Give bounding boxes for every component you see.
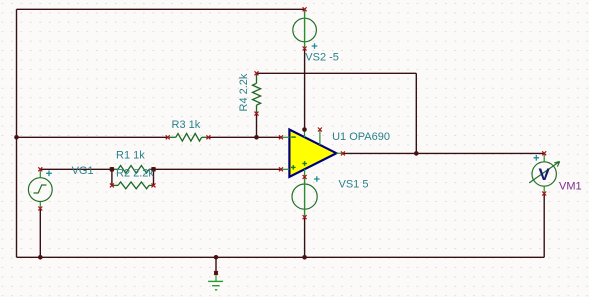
wire: VG1 to R1R2 — [40, 168, 112, 170]
junction left wire / inverting net — [14, 135, 19, 140]
wire: inverting input right segment — [208, 136, 281, 138]
pin marker U1 non-inverting input — [279, 167, 283, 171]
svg-text:R3 1k: R3 1k — [172, 119, 201, 131]
wire: inverting input left segment — [17, 136, 168, 138]
voltage source VS2 circle — [293, 18, 317, 42]
voltmeter VM1 bottom pin stub — [543, 186, 545, 193]
pin marker R4 bottom terminal — [255, 112, 259, 116]
svg-text:VS2 -5: VS2 -5 — [305, 51, 339, 63]
pin marker R2 left terminal — [110, 183, 114, 187]
junction R4 bottom / inverting net — [254, 135, 259, 140]
pin marker VG1 bottom terminal — [38, 207, 42, 211]
pin marker U1 V- pin / VS1 top terminal — [303, 175, 307, 179]
pin marker U1 DIS pin — [318, 128, 322, 132]
resistor R1 — [112, 166, 154, 174]
resistor R2 — [112, 182, 154, 189]
wire: top horizontal — [17, 8, 305, 10]
generator VG1 top pin stub — [39, 169, 41, 177]
svg-text:U1 OPA690: U1 OPA690 — [332, 131, 390, 143]
U1 pin stub V+ supply — [304, 130, 306, 138]
pin marker R2 right terminal — [152, 183, 156, 187]
svg-text:VS1 5: VS1 5 — [339, 179, 369, 191]
wire: feedback horizontal — [257, 72, 417, 74]
voltmeter VM1 arrow shaft — [529, 162, 559, 183]
pin marker R1 right terminal — [152, 167, 156, 171]
op-amp supply plus mark — [302, 161, 307, 166]
svg-text:VG1: VG1 — [72, 165, 94, 177]
U1 pin stub output — [336, 152, 343, 154]
wire: VS2 to op-amp V+ — [304, 49, 306, 130]
wire: VM1 down to bottom — [543, 194, 545, 258]
pin marker VG1 top terminal — [38, 167, 42, 171]
pin marker VM1 bottom terminal — [542, 192, 546, 196]
pin marker U1 inverting input — [279, 135, 283, 139]
polarity plus of VS1 — [314, 176, 320, 182]
op-amp minus input mark — [291, 136, 296, 138]
generator VG1 waveform symbol — [34, 185, 47, 193]
polarity plus of VG1 — [46, 171, 52, 177]
wire: VS1 down to bottom — [304, 217, 306, 257]
op-amp plus input mark — [291, 165, 296, 170]
U1 pin stub non-inverting input — [281, 168, 289, 170]
svg-text:R1 1k: R1 1k — [116, 150, 145, 162]
op-amp U1 triangle — [289, 130, 336, 177]
voltmeter VM1 arrowhead — [554, 162, 559, 163]
voltage source VS1 axis line — [304, 177, 306, 217]
junction VS2 wire / op-amp V+ pin — [302, 127, 307, 132]
pin marker VS1 bottom terminal — [303, 215, 307, 219]
pin marker ground terminal — [214, 271, 218, 275]
junction ground symbol / ground net — [214, 255, 219, 260]
pin marker R4 top terminal — [255, 71, 259, 75]
wire: bottom horizontal — [17, 256, 545, 258]
svg-text:R2 2.2k: R2 2.2k — [116, 167, 154, 179]
junction feedback / output net — [414, 151, 419, 156]
junction VS1 / ground net — [302, 255, 307, 260]
voltmeter VM1 circle — [532, 162, 556, 186]
U1 pin stub V- supply — [304, 169, 306, 177]
generator VG1 circle — [28, 178, 52, 202]
wire: ground stub — [215, 257, 217, 273]
junction R1-R2 left node — [110, 167, 115, 172]
pin marker VS2 bottom terminal — [303, 47, 307, 51]
wire: output horizontal — [343, 152, 544, 154]
generator VG1 bottom pin stub — [39, 201, 41, 208]
wire: feedback vertical — [415, 73, 417, 153]
wire: R4 bottom to inverting node — [256, 114, 258, 138]
pin marker VS2 top terminal — [303, 7, 307, 11]
pin marker VM1 top terminal — [542, 151, 546, 155]
voltage source VS2 axis line — [304, 9, 306, 48]
pin marker R3 right terminal — [206, 135, 210, 139]
resistor R4 (vertical) — [253, 73, 261, 113]
pin marker R3 left terminal — [166, 135, 170, 139]
voltage source VS1 circle — [292, 184, 317, 209]
junction R1-R2 right node — [151, 167, 156, 172]
wire: R2 left drop — [111, 169, 113, 185]
pin marker U1 output — [341, 151, 345, 155]
svg-text:VM1: VM1 — [559, 181, 582, 193]
wire: left vertical — [16, 9, 18, 257]
wire: VG1 down to bottom — [39, 209, 41, 258]
node dots over R1 pin markers — [110, 167, 115, 172]
polarity plus of VS2 — [312, 43, 318, 49]
ground symbol bars — [208, 280, 223, 282]
junction VG1 / ground net — [38, 255, 43, 260]
svg-text:R4 2.2k: R4 2.2k — [238, 73, 250, 111]
U1 pin stub DIS — [319, 130, 321, 145]
ground symbol stem — [215, 273, 217, 281]
voltmeter VM1 top pin stub — [543, 154, 545, 162]
wire: R1R2 to noninverting input — [154, 168, 282, 170]
svg-text:V: V — [539, 165, 551, 184]
U1 pin stub inverting input — [281, 136, 289, 138]
wire: R2 right drop — [153, 169, 155, 185]
pin marker R1 left terminal — [110, 167, 114, 171]
ground pin dot — [214, 271, 218, 275]
polarity plus of VM1 — [534, 155, 540, 161]
resistor R3 — [169, 134, 208, 142]
